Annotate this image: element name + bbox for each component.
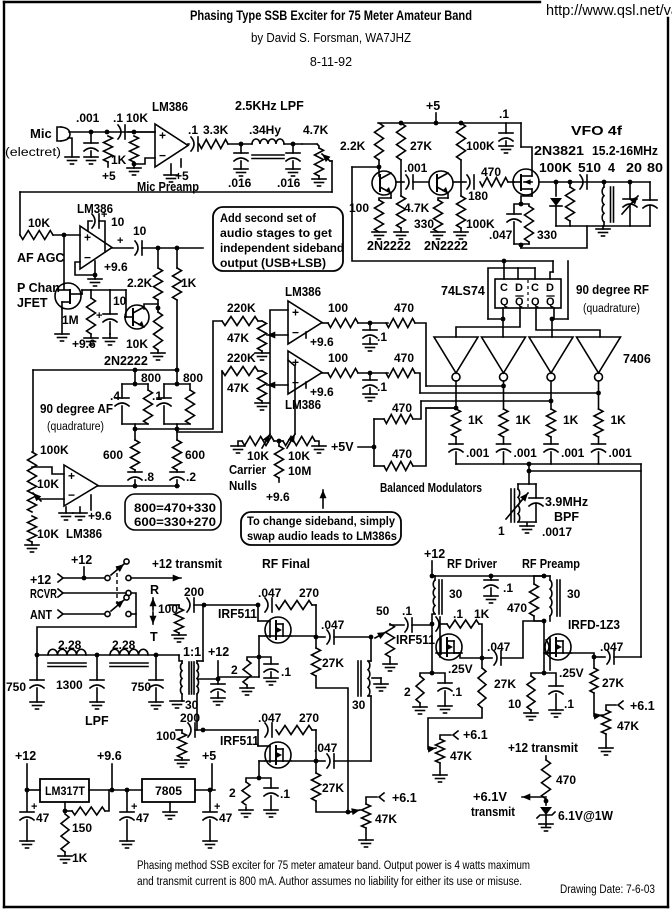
resistor 220K row2 xyxy=(222,367,258,376)
svg-text:.1: .1 xyxy=(152,389,162,403)
op-amp U2 LM386 AF AGC xyxy=(80,226,112,269)
svg-text:10K: 10K xyxy=(37,527,59,541)
capacitor .016 second xyxy=(284,143,302,145)
resistor 27K lower xyxy=(312,773,321,801)
svg-text:.8: .8 xyxy=(144,470,154,484)
svg-text:+: + xyxy=(101,209,107,221)
svg-text:2: 2 xyxy=(231,663,238,677)
resistor 1K mod1 xyxy=(452,409,461,437)
svg-text:D: D xyxy=(515,282,523,294)
wire clock line xyxy=(352,167,553,261)
driver transformer 30 xyxy=(433,580,435,614)
svg-text:2.28: 2.28 xyxy=(112,638,136,652)
svg-text:1300: 1300 xyxy=(56,678,83,692)
svg-text:+12: +12 xyxy=(15,749,36,763)
preamp transformer 30 xyxy=(544,575,550,577)
variable capacitor 20 xyxy=(629,182,631,199)
resistor 470 osc xyxy=(480,178,508,187)
svg-text:IRFD-1Z3: IRFD-1Z3 xyxy=(568,618,620,632)
resistor 2.2K xyxy=(157,248,159,268)
svg-text:4: 4 xyxy=(608,161,615,175)
capacitor series 180 node xyxy=(467,175,470,189)
svg-text:47K: 47K xyxy=(450,749,472,763)
node 10K junction xyxy=(132,130,137,135)
svg-text:−: − xyxy=(68,488,75,502)
wire mic to opamp xyxy=(69,131,155,133)
svg-text:150: 150 xyxy=(72,821,92,835)
svg-text:+6.1: +6.1 xyxy=(630,699,655,713)
capacitor 200 upper gate xyxy=(187,598,190,612)
wire +5V node xyxy=(358,446,374,448)
wire +12 transmit out xyxy=(131,577,181,579)
wire clock to D2 xyxy=(552,261,554,272)
svg-text:10K: 10K xyxy=(28,216,50,230)
svg-text:2.2K: 2.2K xyxy=(127,276,153,290)
svg-text:LM386: LM386 xyxy=(285,398,321,412)
drain wire upper xyxy=(292,635,316,637)
svg-text:−: − xyxy=(292,325,299,339)
resistor 2 lower xyxy=(246,778,259,782)
svg-text:1M: 1M xyxy=(62,313,79,327)
source network lower xyxy=(259,760,264,762)
svg-text:3.3K: 3.3K xyxy=(203,123,229,137)
svg-text:1K: 1K xyxy=(611,413,627,427)
svg-text:1: 1 xyxy=(498,524,505,538)
svg-text:47: 47 xyxy=(136,811,150,825)
svg-text:transmit: transmit xyxy=(471,805,516,819)
svg-text:47K: 47K xyxy=(617,719,639,733)
wire driver bias xyxy=(428,708,482,749)
capacitor 750 second xyxy=(155,655,157,680)
inductor 2.28 first xyxy=(48,649,86,655)
potentiometer 47K row2 xyxy=(258,371,267,401)
svg-text:(quadrature): (quadrature) xyxy=(583,303,640,315)
svg-text:JFET: JFET xyxy=(17,296,48,310)
svg-text:Carrier: Carrier xyxy=(229,463,266,477)
svg-text:2: 2 xyxy=(404,685,411,699)
preamp 470 resistor xyxy=(534,575,544,577)
svg-text:LM386: LM386 xyxy=(285,285,321,299)
svg-text:+9.6: +9.6 xyxy=(310,335,334,349)
svg-text:750: 750 xyxy=(131,680,151,694)
svg-text:2.28: 2.28 xyxy=(58,638,82,652)
capacitor .1 upper source xyxy=(259,657,271,664)
resistor 100K chain xyxy=(28,452,37,484)
svg-text:+9.6: +9.6 xyxy=(104,260,128,274)
svg-text:.1: .1 xyxy=(188,123,198,137)
svg-text:audio stages to get: audio stages to get xyxy=(220,226,332,240)
svg-text:+9.6: +9.6 xyxy=(310,385,334,399)
capacitor .001 mod1 xyxy=(455,437,457,444)
+9.6 pin U5 xyxy=(90,495,92,510)
resistor 100 upper gate xyxy=(169,604,179,606)
+9.6 pin U4 xyxy=(305,382,307,388)
resistor 1M xyxy=(81,290,83,294)
capacitor .001 mod4 xyxy=(598,437,600,444)
capacitor .1 driver source xyxy=(432,673,445,683)
wire 10K to opamp xyxy=(128,131,155,133)
IC 7805 xyxy=(142,779,195,802)
switch lever bottom xyxy=(111,600,124,611)
ground pin U2 xyxy=(94,276,96,279)
capacitor .047 preamp out xyxy=(594,656,605,658)
wiper arrow 4.7K xyxy=(322,154,330,161)
node base Q1 xyxy=(378,160,380,176)
svg-text:10K: 10K xyxy=(126,111,148,125)
wire bus line2 xyxy=(420,392,599,394)
svg-text:.1: .1 xyxy=(452,685,462,699)
resistor 27K preamp xyxy=(590,668,598,693)
svg-text:470: 470 xyxy=(392,401,412,415)
svg-text:1K: 1K xyxy=(181,276,197,290)
svg-text:2N3821: 2N3821 xyxy=(534,144,584,158)
wire preamp gate xyxy=(543,621,545,673)
BPF tank xyxy=(518,483,536,485)
capacitor .001 interstage xyxy=(396,181,404,183)
svg-text:−: − xyxy=(84,250,91,264)
feedback .047 upper xyxy=(265,598,268,612)
svg-text:50: 50 xyxy=(376,604,390,618)
svg-text:2: 2 xyxy=(229,786,236,800)
inductor 2.28 second xyxy=(110,649,148,655)
resistor 27K driver xyxy=(478,668,486,708)
driver drain wire xyxy=(454,652,460,654)
wire +12 to pole xyxy=(63,577,104,579)
svg-text:100K: 100K xyxy=(466,139,495,153)
svg-text:47K: 47K xyxy=(375,812,397,826)
svg-text:30: 30 xyxy=(352,698,366,712)
svg-text:.1: .1 xyxy=(499,107,509,121)
node AGC gate junction xyxy=(62,233,67,238)
capacitor .047 vfo xyxy=(514,204,521,214)
svg-text:100: 100 xyxy=(156,729,176,743)
allpass network 1 800/.4 xyxy=(134,370,136,384)
+12 wire final xyxy=(218,676,259,678)
svg-text:(electret): (electret) xyxy=(5,147,61,159)
capacitor 1300 xyxy=(96,655,98,680)
svg-text:4.7K: 4.7K xyxy=(303,123,329,137)
JFET Q5 2N3821 xyxy=(513,169,539,195)
74LS74 box xyxy=(495,279,561,308)
resistor 100K vfo xyxy=(569,182,571,187)
svg-text:.1: .1 xyxy=(402,604,412,618)
svg-text:30: 30 xyxy=(567,587,581,601)
feedback loop minus input U2 xyxy=(75,261,95,275)
svg-text:1K: 1K xyxy=(563,413,579,427)
svg-text:4.7K: 4.7K xyxy=(404,201,430,215)
svg-text:1K: 1K xyxy=(72,851,88,865)
wire plus input xyxy=(32,467,64,474)
node zener xyxy=(545,799,547,805)
wire 470#1 to bus xyxy=(415,323,426,386)
ground JFET source xyxy=(61,309,63,334)
capacitor .8 xyxy=(134,470,136,472)
inverter 7404 triangle xyxy=(577,337,621,373)
svg-text:LM386: LM386 xyxy=(77,202,113,216)
ground pins U5 xyxy=(65,507,67,513)
svg-text:470: 470 xyxy=(507,601,527,615)
svg-text:47K: 47K xyxy=(227,331,249,345)
svg-text:LM386: LM386 xyxy=(152,100,188,114)
wire bus line4 xyxy=(426,407,456,409)
ground BPF xyxy=(526,523,528,526)
svg-text:.001: .001 xyxy=(404,161,428,175)
potentiometer 4.7K xyxy=(317,144,319,148)
svg-text:.1: .1 xyxy=(113,111,123,125)
svg-text:80: 80 xyxy=(647,161,663,175)
VFO bottom rail xyxy=(556,225,650,227)
svg-text:−: − xyxy=(159,148,166,162)
svg-text:C: C xyxy=(531,282,539,294)
potentiometer 10K lower xyxy=(28,516,37,542)
svg-text:.1: .1 xyxy=(453,607,463,621)
op-amp U4 LM386 lower xyxy=(288,351,322,394)
svg-text:7406: 7406 xyxy=(623,352,651,366)
svg-text:2N2222: 2N2222 xyxy=(104,354,148,368)
IC LM317T xyxy=(40,779,89,802)
node .001 junction xyxy=(89,130,94,135)
resistor 100 upper xyxy=(322,322,328,324)
svg-text:47K: 47K xyxy=(227,381,249,395)
wiper null1 xyxy=(262,434,270,448)
wire crosscouple D1 C2 xyxy=(488,268,535,319)
wire 470#2 to bus xyxy=(415,373,420,393)
wire gate drop upper xyxy=(257,605,259,621)
svg-text:10: 10 xyxy=(508,697,522,711)
wiper arrow 50 xyxy=(375,632,386,638)
LPF rail xyxy=(37,654,179,656)
svg-text:7805: 7805 xyxy=(155,784,182,798)
wire 1K to audio bus xyxy=(176,300,178,370)
wiper wire to minus input xyxy=(33,493,41,501)
svg-text:Phasing Type SSB Exciter for 7: Phasing Type SSB Exciter for 75 Meter Am… xyxy=(190,8,472,23)
svg-text:15.2-16MHz: 15.2-16MHz xyxy=(592,144,658,158)
capacitor 47 mid xyxy=(126,790,128,811)
resistor 10K AF AGC input xyxy=(20,231,53,240)
VFO output wire xyxy=(539,181,650,183)
pot 47K final bias xyxy=(362,804,371,828)
svg-text:+: + xyxy=(68,469,75,483)
wire LM317 out xyxy=(89,789,142,791)
svg-text:RF Preamp: RF Preamp xyxy=(522,557,580,571)
svg-text:200: 200 xyxy=(184,585,204,599)
wire 27K to bias line xyxy=(316,676,348,812)
wire Qbar2 down xyxy=(553,308,555,319)
resistor 100 lower xyxy=(322,372,328,374)
svg-text:Mic: Mic xyxy=(30,126,52,141)
svg-text:T: T xyxy=(150,630,158,644)
svg-text:47: 47 xyxy=(36,811,50,825)
svg-text:Phasing method SSB exciter for: Phasing method SSB exciter for 75 meter … xyxy=(137,860,530,872)
svg-text:Q: Q xyxy=(515,296,524,308)
svg-text:P Chan: P Chan xyxy=(17,281,60,295)
capacitor .047 driver out xyxy=(482,657,492,659)
LM317 adj resistor 150 xyxy=(64,802,66,811)
svg-text:.1: .1 xyxy=(281,665,291,679)
resistor 4.7K xyxy=(400,160,402,196)
wire to lpf node A xyxy=(228,143,252,145)
svg-text:30: 30 xyxy=(449,587,463,601)
svg-text:470: 470 xyxy=(481,165,501,179)
svg-text:LM386: LM386 xyxy=(66,527,102,541)
ground pin 7805 xyxy=(169,802,171,812)
svg-text:+5: +5 xyxy=(202,749,216,763)
capacitor .1 lower source xyxy=(259,778,271,788)
resistor 600 second xyxy=(176,429,178,440)
source network Q5 xyxy=(531,194,533,196)
wire 50 to .1 xyxy=(390,624,404,625)
wire lpf to pot 4.7K xyxy=(302,143,317,145)
svg-text:270: 270 xyxy=(299,711,319,725)
svg-text:10M: 10M xyxy=(288,464,311,478)
wire Q2 down xyxy=(536,308,600,337)
node 1K junction xyxy=(105,130,110,135)
svg-text:+9.6: +9.6 xyxy=(97,749,122,763)
svg-text:1K: 1K xyxy=(111,153,127,167)
resistor 1K mod2 xyxy=(499,409,508,437)
page border frame xyxy=(4,1,540,3)
MOSFET Q9 IRFD-1Z3 xyxy=(545,634,571,660)
resistor 470 num1 xyxy=(386,319,415,328)
up arrow xyxy=(322,490,324,508)
svg-text:.1: .1 xyxy=(503,581,513,595)
svg-text:470: 470 xyxy=(392,447,412,461)
svg-text:LPF: LPF xyxy=(85,714,109,728)
svg-text:330: 330 xyxy=(537,228,557,242)
wire 7805 out xyxy=(195,789,215,791)
svg-text:270: 270 xyxy=(299,586,319,600)
capacitor .047 coupling upper xyxy=(316,636,325,638)
svg-text:2N2222: 2N2222 xyxy=(367,239,411,253)
wire ant to lpf xyxy=(37,627,136,655)
+9.6 pin U3 xyxy=(305,332,307,338)
capacitor .2 xyxy=(176,470,178,472)
svg-text:VFO 4f: VFO 4f xyxy=(571,124,623,138)
MOSFET Q7 IRF511 lower xyxy=(265,742,291,768)
resistor 3.3K xyxy=(199,140,228,149)
svg-text:.001: .001 xyxy=(76,111,100,125)
svg-text:.047: .047 xyxy=(314,741,338,755)
transistor Q3 2N2222 first xyxy=(372,171,396,195)
svg-text:+12: +12 xyxy=(30,573,51,587)
node null center xyxy=(274,440,283,442)
capacitor 200 lower gate xyxy=(188,723,191,737)
svg-text:470: 470 xyxy=(394,301,414,315)
svg-text:RF Driver: RF Driver xyxy=(447,557,497,571)
svg-text:.047: .047 xyxy=(600,640,624,654)
resistor 600 first xyxy=(134,429,136,440)
resistor 2.2K xyxy=(375,123,384,160)
svg-text:.047: .047 xyxy=(258,586,282,600)
svg-text:.4: .4 xyxy=(110,389,120,403)
svg-text:.016: .016 xyxy=(277,176,301,190)
wire 470#4 to bus line4 xyxy=(413,408,456,466)
resistor 220K row1 xyxy=(222,317,258,326)
svg-text:+6.1V: +6.1V xyxy=(473,790,508,804)
svg-text:.001: .001 xyxy=(514,446,538,460)
svg-text:.001: .001 xyxy=(609,446,633,460)
svg-text:470: 470 xyxy=(394,351,414,365)
svg-text:220K: 220K xyxy=(227,301,256,315)
resistor 10K agc emitter xyxy=(154,312,163,350)
node lpf B xyxy=(291,142,296,147)
svg-text:10: 10 xyxy=(113,294,127,308)
svg-text:.001: .001 xyxy=(561,446,585,460)
varactor diode xyxy=(555,182,557,196)
resistor 100 emitter Q3 xyxy=(390,193,392,198)
switch gang dashed xyxy=(116,566,118,603)
resistor 330 emitter Q4 xyxy=(447,193,449,198)
svg-text:10K: 10K xyxy=(126,337,148,351)
svg-text:10K: 10K xyxy=(247,449,269,463)
svg-text:+12 transmit: +12 transmit xyxy=(508,741,579,755)
inverter 7402 triangle xyxy=(482,337,526,373)
resistor 1K mod4 xyxy=(594,409,603,437)
potentiometer 10K null1 xyxy=(242,437,274,446)
+5 pin opamp U1 xyxy=(180,159,182,167)
capacitor .1 interstage xyxy=(405,618,408,632)
svg-text:output (USB+LSB): output (USB+LSB) xyxy=(220,256,326,270)
svg-text:100K: 100K xyxy=(40,443,69,457)
capacitor .016 first xyxy=(240,144,242,153)
wiper arrow row1 xyxy=(267,334,288,336)
svg-text:D: D xyxy=(546,282,554,294)
resistor 27K upper xyxy=(312,648,321,676)
resistor 470 num3 xyxy=(374,418,384,420)
svg-text:470: 470 xyxy=(556,773,576,787)
feedback .047 lower xyxy=(265,723,268,737)
capacitor .1 series xyxy=(118,125,121,139)
svg-text:.016: .016 xyxy=(228,176,252,190)
+5 to VFO drain xyxy=(520,123,522,147)
capacitor .1 rail bypass xyxy=(505,123,507,133)
wire bpf tap xyxy=(528,464,530,484)
svg-text:600=330+270: 600=330+270 xyxy=(134,517,216,529)
svg-text:Balanced Modulators: Balanced Modulators xyxy=(380,481,482,495)
svg-text:8-11-92: 8-11-92 xyxy=(310,55,352,69)
+5 rail xyxy=(435,113,437,123)
node lower gate xyxy=(195,729,258,731)
resistor 100K second xyxy=(460,160,462,196)
svg-text:RF Final: RF Final xyxy=(262,557,310,571)
resistor 10K to ground xyxy=(130,136,139,162)
svg-text:R: R xyxy=(150,583,159,597)
ground tap output transformer xyxy=(372,677,381,679)
svg-text:180: 180 xyxy=(468,189,488,203)
op-amp U3 LM386 upper xyxy=(288,301,322,344)
op-amp U1 LM386 mic preamp xyxy=(155,124,188,167)
svg-text:800: 800 xyxy=(141,371,161,385)
svg-text:.001: .001 xyxy=(466,446,490,460)
svg-text:independent sideband: independent sideband xyxy=(220,241,344,255)
inductor VFO tank xyxy=(602,187,604,222)
svg-text:47: 47 xyxy=(219,811,233,825)
svg-text:and transmit current is 800 mA: and transmit current is 800 mA. Author a… xyxy=(137,876,522,888)
svg-text:http://www.qsl.net/va3: http://www.qsl.net/va3 xyxy=(546,3,672,19)
pot 47K driver bias xyxy=(436,739,445,763)
resistor 470 num2 xyxy=(386,369,415,378)
wire tap1 to 220K row1 xyxy=(135,321,222,429)
svg-text:.25V: .25V xyxy=(559,666,584,680)
resistor 1K adj xyxy=(61,814,69,852)
svg-text:C: C xyxy=(500,282,508,294)
wire U2 output xyxy=(142,247,203,249)
wire vfo to tank ground rail xyxy=(521,226,587,248)
svg-text:100K: 100K xyxy=(539,161,572,175)
svg-text:.047: .047 xyxy=(258,711,282,725)
wire right crosscouple xyxy=(567,261,569,319)
resistor 470 num4 xyxy=(374,465,384,467)
